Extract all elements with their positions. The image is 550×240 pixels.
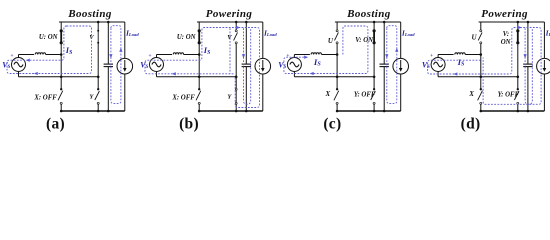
svg-text:Boosting: Boosting [346,8,391,20]
svg-text:V: ON: V: ON [355,37,374,44]
svg-text:Powering: Powering [481,8,528,20]
svg-text:+: + [148,53,151,59]
svg-text:X: X [468,90,474,98]
svg-text:(d): (d) [461,116,481,133]
svg-text:ON: ON [501,39,512,46]
svg-text:X: X [325,90,331,98]
svg-text:+: + [430,53,433,59]
svg-text:(c): (c) [323,116,341,133]
svg-text:V:: V: [503,31,509,38]
svg-text:(a): (a) [46,116,65,133]
svg-text:Boosting: Boosting [67,8,112,20]
svg-text:+: + [10,53,13,59]
svg-text:X: OFF: X: OFF [171,95,195,102]
svg-text:U: ON: U: ON [39,34,59,41]
svg-text:Y: OFF: Y: OFF [498,91,520,98]
svg-text:(b): (b) [179,116,199,133]
svg-text:X: OFF: X: OFF [33,95,57,102]
svg-text:+: + [286,53,289,59]
svg-text:Powering: Powering [206,8,253,20]
svg-text:Y: OFF: Y: OFF [354,91,376,98]
svg-text:U: ON: U: ON [177,34,197,41]
